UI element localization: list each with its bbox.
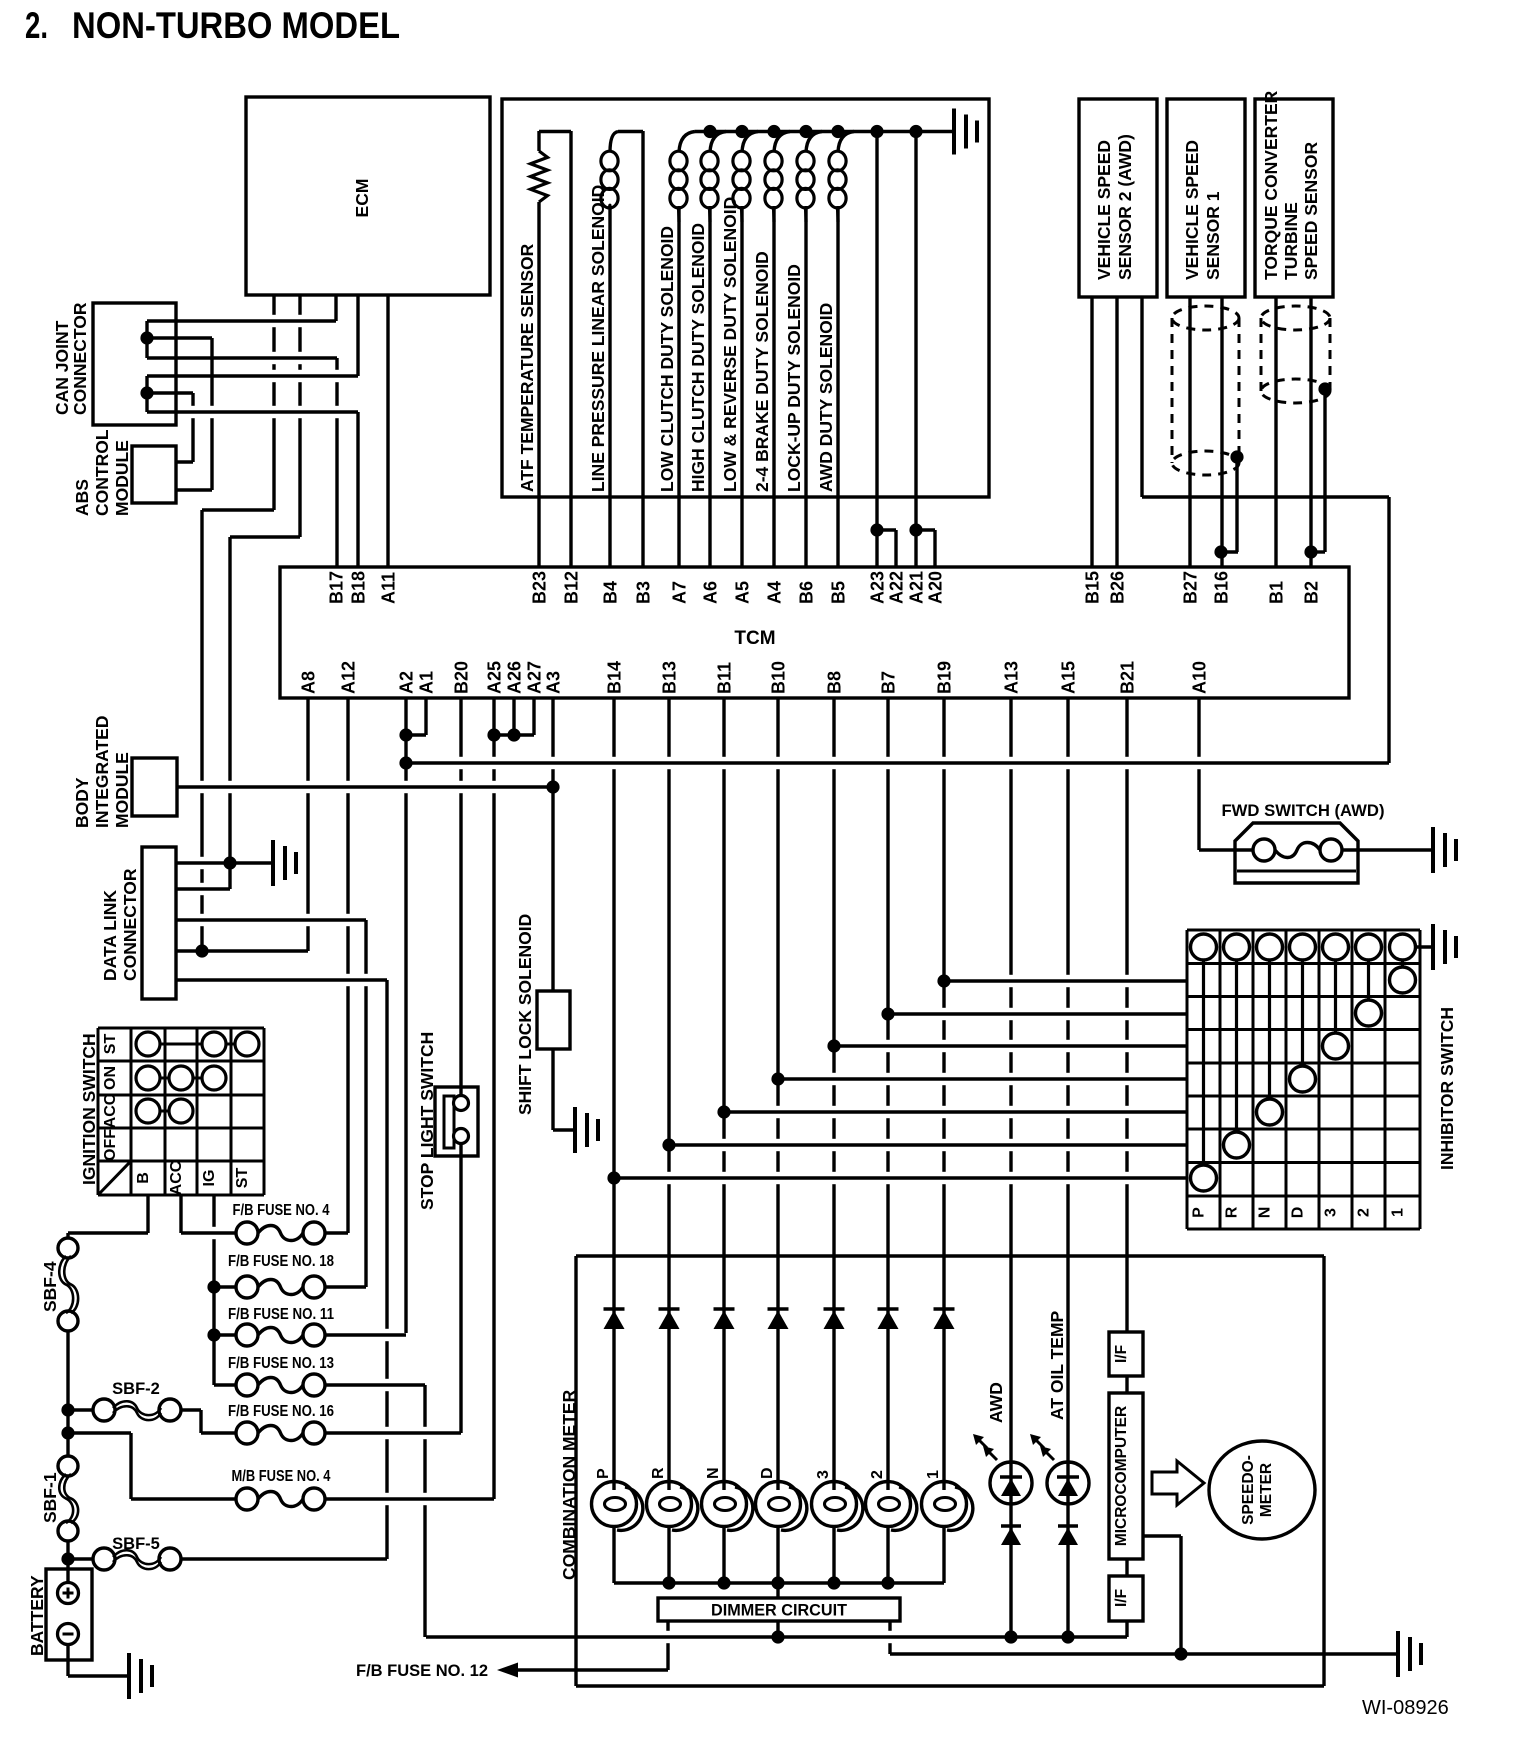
svg-text:B14: B14: [605, 661, 625, 694]
svg-text:WI-08926: WI-08926: [1362, 1697, 1449, 1719]
svg-text:ATF TEMPERATURE SENSOR: ATF TEMPERATURE SENSOR: [517, 243, 537, 492]
svg-text:B23: B23: [530, 571, 550, 604]
svg-text:IGNITION SWITCH: IGNITION SWITCH: [79, 1033, 99, 1185]
svg-text:NON-TURBO MODEL: NON-TURBO MODEL: [72, 5, 400, 46]
svg-text:CONNECTOR: CONNECTOR: [120, 868, 140, 981]
svg-text:B10: B10: [769, 661, 789, 694]
svg-text:A26: A26: [505, 661, 525, 694]
svg-text:A2: A2: [397, 671, 417, 694]
svg-text:MICROCOMPUTER: MICROCOMPUTER: [1113, 1406, 1130, 1546]
svg-text:A5: A5: [733, 581, 753, 604]
svg-text:SHIFT LOCK SOLENOID: SHIFT LOCK SOLENOID: [515, 914, 535, 1115]
svg-text:AWD DUTY SOLENOID: AWD DUTY SOLENOID: [816, 303, 836, 492]
svg-text:R: R: [650, 1467, 667, 1479]
svg-text:SBF-4: SBF-4: [40, 1261, 60, 1312]
svg-text:DATA LINK: DATA LINK: [100, 890, 120, 981]
svg-text:LOW & REVERSE DUTY SOLENOID: LOW & REVERSE DUTY SOLENOID: [720, 197, 740, 492]
svg-text:LOW CLUTCH DUTY SOLENOID: LOW CLUTCH DUTY SOLENOID: [657, 226, 677, 492]
svg-text:A21: A21: [907, 571, 927, 604]
svg-text:B7: B7: [879, 671, 899, 694]
svg-text:CONTROL: CONTROL: [92, 429, 112, 516]
svg-text:D: D: [759, 1467, 776, 1479]
svg-text:3: 3: [1323, 1208, 1340, 1217]
svg-text:ABS: ABS: [72, 479, 92, 516]
svg-text:B11: B11: [715, 662, 735, 694]
svg-text:A6: A6: [701, 581, 721, 604]
svg-text:COMBINATION METER: COMBINATION METER: [559, 1389, 579, 1580]
svg-text:M/B FUSE NO. 4: M/B FUSE NO. 4: [232, 1468, 331, 1485]
svg-text:TCM: TCM: [734, 628, 775, 649]
svg-text:A15: A15: [1059, 661, 1079, 694]
svg-text:B26: B26: [1108, 571, 1128, 604]
svg-text:HIGH CLUTCH DUTY SOLENOID: HIGH CLUTCH DUTY SOLENOID: [688, 223, 708, 492]
svg-text:P: P: [595, 1468, 612, 1479]
svg-text:A1: A1: [417, 671, 437, 694]
svg-text:B21: B21: [1118, 661, 1138, 694]
svg-text:B8: B8: [825, 671, 845, 694]
svg-text:A10: A10: [1190, 661, 1210, 694]
svg-text:SBF-1: SBF-1: [40, 1472, 60, 1523]
svg-text:A8: A8: [299, 671, 319, 694]
svg-text:B1: B1: [1267, 581, 1287, 604]
svg-text:F/B FUSE NO. 12: F/B FUSE NO. 12: [356, 1662, 488, 1680]
svg-text:A4: A4: [765, 581, 785, 604]
svg-text:A13: A13: [1002, 661, 1022, 694]
svg-text:B15: B15: [1083, 571, 1103, 604]
svg-text:MODULE: MODULE: [112, 440, 132, 516]
svg-text:AT OIL TEMP: AT OIL TEMP: [1047, 1310, 1067, 1420]
svg-text:ACC: ACC: [102, 1093, 119, 1128]
svg-text:B27: B27: [1181, 571, 1201, 604]
svg-text:F/B FUSE NO. 4: F/B FUSE NO. 4: [233, 1202, 330, 1219]
svg-text:B4: B4: [601, 581, 621, 604]
svg-text:B13: B13: [660, 661, 680, 694]
svg-text:F/B FUSE NO. 13: F/B FUSE NO. 13: [228, 1355, 334, 1372]
svg-text:2: 2: [1356, 1208, 1373, 1217]
svg-text:STOP LIGHT SWITCH: STOP LIGHT SWITCH: [417, 1032, 437, 1210]
svg-text:B5: B5: [829, 581, 849, 604]
svg-text:F/B FUSE NO. 16: F/B FUSE NO. 16: [228, 1403, 334, 1420]
svg-text:TORQUE CONVERTER: TORQUE CONVERTER: [1261, 90, 1281, 280]
svg-text:SPEEDO-: SPEEDO-: [1240, 1455, 1257, 1525]
svg-text:FWD SWITCH (AWD): FWD SWITCH (AWD): [1222, 801, 1385, 820]
svg-text:B18: B18: [349, 571, 369, 604]
svg-text:ACC: ACC: [168, 1160, 185, 1195]
svg-text:N: N: [705, 1467, 722, 1479]
svg-text:IG: IG: [201, 1170, 218, 1187]
svg-text:BODY: BODY: [72, 777, 92, 828]
svg-text:B16: B16: [1212, 571, 1232, 604]
svg-text:A23: A23: [868, 571, 888, 604]
svg-text:TURBINE: TURBINE: [1281, 202, 1301, 280]
svg-text:A12: A12: [339, 661, 359, 694]
svg-text:A7: A7: [670, 581, 690, 604]
svg-text:SENSOR 2 (AWD): SENSOR 2 (AWD): [1115, 134, 1135, 280]
svg-text:METER: METER: [1258, 1463, 1275, 1517]
svg-text:3: 3: [815, 1470, 832, 1479]
svg-text:LOCK-UP DUTY SOLENOID: LOCK-UP DUTY SOLENOID: [784, 264, 804, 492]
svg-text:A20: A20: [926, 571, 946, 604]
svg-text:DIMMER CIRCUIT: DIMMER CIRCUIT: [711, 1601, 848, 1620]
svg-text:B2: B2: [1302, 581, 1322, 604]
svg-text:N: N: [1257, 1207, 1274, 1219]
svg-text:ON: ON: [102, 1066, 119, 1090]
svg-text:CONNECTOR: CONNECTOR: [70, 302, 90, 415]
svg-text:B3: B3: [634, 581, 654, 604]
svg-text:ECM: ECM: [352, 179, 372, 218]
svg-text:2: 2: [869, 1470, 886, 1479]
svg-text:SBF-5: SBF-5: [112, 1535, 160, 1553]
svg-text:SENSOR 1: SENSOR 1: [1203, 191, 1223, 280]
svg-text:VEHICLE SPEED: VEHICLE SPEED: [1094, 140, 1114, 280]
svg-text:LINE PRESSURE LINEAR SOLENOID: LINE PRESSURE LINEAR SOLENOID: [588, 185, 608, 492]
svg-text:SBF-2: SBF-2: [112, 1380, 160, 1398]
svg-text:INHIBITOR SWITCH: INHIBITOR SWITCH: [1437, 1007, 1457, 1170]
svg-text:F/B FUSE NO. 18: F/B FUSE NO. 18: [228, 1253, 334, 1270]
svg-text:B: B: [135, 1172, 152, 1184]
svg-text:B6: B6: [797, 581, 817, 604]
svg-text:A25: A25: [485, 661, 505, 694]
svg-text:OFF: OFF: [102, 1129, 119, 1161]
svg-text:2-4 BRAKE DUTY SOLENOID: 2-4 BRAKE DUTY SOLENOID: [752, 251, 772, 492]
svg-text:SPEED SENSOR: SPEED SENSOR: [1301, 142, 1321, 280]
svg-text:R: R: [1224, 1206, 1241, 1218]
svg-text:B20: B20: [452, 661, 472, 694]
svg-text:B19: B19: [935, 661, 955, 694]
svg-text:B17: B17: [327, 571, 347, 604]
svg-text:BATTERY: BATTERY: [27, 1575, 47, 1656]
svg-text:ST: ST: [234, 1168, 251, 1189]
svg-text:I/F: I/F: [1113, 1589, 1130, 1607]
svg-text:2.: 2.: [25, 5, 48, 46]
svg-text:A3: A3: [544, 671, 564, 694]
svg-text:B12: B12: [562, 571, 582, 604]
svg-text:VEHICLE SPEED: VEHICLE SPEED: [1182, 140, 1202, 280]
svg-text:D: D: [1290, 1207, 1307, 1219]
svg-text:INTEGRATED: INTEGRATED: [92, 716, 112, 828]
svg-text:1: 1: [925, 1470, 942, 1479]
svg-text:AWD: AWD: [986, 1382, 1006, 1423]
svg-text:F/B FUSE NO. 11: F/B FUSE NO. 11: [228, 1306, 334, 1323]
svg-text:A22: A22: [887, 571, 907, 604]
svg-text:MODULE: MODULE: [112, 752, 132, 828]
svg-text:A11: A11: [379, 572, 399, 604]
svg-text:I/F: I/F: [1113, 1345, 1130, 1363]
svg-text:P: P: [1191, 1207, 1208, 1218]
svg-text:A27: A27: [525, 661, 545, 694]
svg-text:ST: ST: [102, 1034, 119, 1055]
svg-text:CAN JOINT: CAN JOINT: [52, 320, 72, 415]
svg-text:1: 1: [1390, 1208, 1407, 1217]
